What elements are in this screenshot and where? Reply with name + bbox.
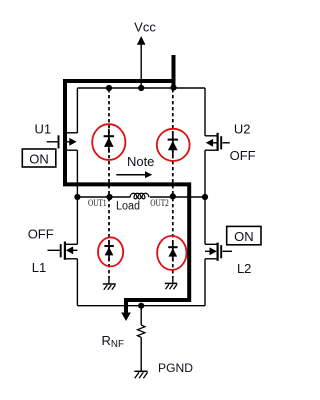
ground (small) under L2 body diode branch [165, 278, 178, 289]
wire right edge lower (L2 source to bottom rail) [204, 259, 206, 306]
diode body-diode of L2 [168, 242, 177, 262]
wire left edge middle (U1 source to OUT1 to L1 drain) [76, 150, 78, 244]
wire mid rail left (OUT1 to Load) [77, 196, 130, 198]
Vcc supply lead with up arrow [137, 36, 146, 88]
label ON box for L2 [227, 226, 261, 244]
wire top rail (thin, drain bus) [77, 87, 205, 89]
svg-text:U1: U1 [34, 122, 51, 137]
junction dot on top rail at OUT2 diode branch / bold stub [170, 85, 176, 91]
wire left edge lower (L1 source to bottom rail) [76, 259, 78, 306]
junction dot bottom rail at RNF [138, 303, 144, 309]
node OUT1 dashed branch upper (body diode D-U1) [108, 89, 110, 196]
wire bottom rail (source bus to RNF) [77, 305, 205, 307]
svg-text:ON: ON [234, 229, 254, 244]
red highlight circle around L1 body diode [98, 237, 123, 266]
junction dot OUT1 node at mid rail left [74, 194, 80, 200]
wire right edge middle (U2 source to OUT2 to L2 drain) [204, 150, 206, 244]
svg-text:Note: Note [127, 154, 154, 169]
junction dot on top rail at Vcc lead [138, 85, 144, 91]
svg-text:PGND: PGND [158, 361, 193, 375]
svg-text:Vcc: Vcc [134, 19, 156, 34]
inductor Load [130, 193, 149, 199]
transistor L2 (N-ch low side, right) [205, 243, 232, 261]
wire bold current path: Vcc stub, top rail, down through U1, across, down right of OUT2, bottom, arrow into RNF node [65, 55, 189, 321]
ground (small) under L1 body diode branch [103, 278, 116, 290]
svg-text:OFF: OFF [28, 226, 54, 241]
label ON box for U1 [22, 149, 56, 167]
node OUT2 dashed branch lower (body diode D-L2) [172, 198, 174, 278]
note arrow (current direction annotation) [116, 171, 152, 178]
wire right edge upper (U2 drain lead) [204, 88, 206, 136]
svg-text:OFF: OFF [230, 148, 256, 163]
junction dot mid rail at right edge [202, 194, 208, 200]
red highlight circle around U2 body diode [157, 129, 190, 161]
svg-text:OUT2: OUT2 [150, 199, 169, 209]
svg-text:OUT1: OUT1 [88, 199, 107, 209]
node OUT1 dashed branch lower (body diode D-L1) [108, 198, 110, 278]
svg-text:L1: L1 [32, 260, 46, 275]
resistor RNF [138, 306, 145, 372]
diode body-diode of L1 [104, 241, 113, 261]
svg-text:U2: U2 [234, 122, 251, 137]
diode body-diode of U2 [168, 132, 178, 156]
transistor U2 (P-ch high side, right) [205, 133, 230, 151]
red highlight circle around L2 body diode [157, 236, 186, 270]
junction dot mid rail at OUT2 diode branch [170, 193, 176, 199]
svg-text:L2: L2 [237, 261, 251, 276]
wire mid rail right (Load to OUT2) [150, 196, 205, 198]
transistor L1 (N-ch low side, left) [48, 242, 78, 260]
wire left edge upper (U1 drain lead) [76, 88, 78, 133]
capacitor-free red highlight circle around U1 body diode [92, 124, 125, 160]
transistor U1 (P-ch high side, left) [47, 132, 78, 151]
svg-text:ON: ON [29, 151, 49, 166]
ground PGND [134, 371, 147, 378]
junction dot on top rail at OUT1 diode branch [106, 85, 112, 91]
diode body-diode of U1 [104, 129, 114, 153]
svg-text:Load: Load [116, 201, 140, 213]
junction dot mid rail at left diode branch [106, 194, 112, 200]
node OUT2 dashed branch upper (body diode D-U2) [172, 89, 174, 196]
